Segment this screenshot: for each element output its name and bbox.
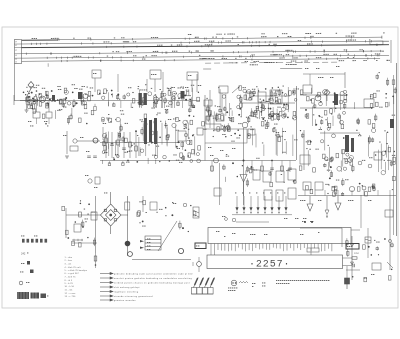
harness tick	[323, 50, 325, 52]
value label	[226, 155, 229, 158]
value label	[57, 85, 60, 88]
resistor R97	[278, 137, 281, 141]
hatched resistor R21	[365, 237, 371, 243]
value label	[261, 106, 262, 109]
junction	[300, 130, 301, 131]
value label	[80, 136, 83, 139]
junction	[188, 231, 189, 232]
junction	[375, 154, 377, 156]
value label	[262, 282, 265, 285]
spare row label	[21, 235, 24, 238]
lead wire 86	[278, 114, 280, 121]
resistor R212	[179, 223, 181, 227]
lead wire 108	[346, 238, 348, 247]
harness tick	[238, 51, 240, 53]
junction	[392, 96, 394, 98]
junction	[176, 146, 178, 148]
value label	[228, 289, 235, 292]
tube label	[256, 192, 257, 195]
value label	[125, 122, 128, 125]
harness tick	[30, 43, 32, 45]
harness wire tag	[349, 35, 354, 38]
harness tick	[184, 38, 186, 40]
harness wire tag	[351, 32, 356, 35]
module U5	[385, 210, 393, 217]
tube label	[263, 192, 264, 195]
legend arrow 5	[100, 290, 113, 292]
transformer T7	[258, 92, 266, 102]
harness tick	[123, 46, 125, 48]
value label	[321, 116, 322, 119]
lead label	[141, 120, 142, 123]
transistor Q41	[184, 133, 187, 136]
board pin	[269, 244, 271, 250]
resistor R174	[342, 149, 345, 153]
resistor R167	[302, 134, 304, 137]
harness wire tag	[316, 56, 321, 59]
value label	[74, 87, 77, 90]
junction	[356, 130, 357, 131]
lead wire 91	[245, 170, 247, 174]
harness tick	[345, 40, 347, 42]
value label	[168, 89, 169, 92]
svg-text:7 - belt 75: 7 - belt 75	[65, 276, 77, 279]
junction	[327, 193, 328, 194]
harness tick	[255, 41, 257, 43]
transistor Q59	[337, 167, 342, 172]
lead label	[274, 126, 275, 129]
harness wire tag	[253, 60, 258, 63]
riser wire	[94, 78, 96, 92]
harness wire tag	[316, 32, 321, 35]
resistor R96	[207, 116, 209, 120]
tube label	[249, 192, 250, 195]
transformer T12	[216, 114, 224, 121]
junction	[136, 161, 138, 163]
lead wire	[219, 89, 221, 108]
bracket tick	[77, 239, 79, 241]
value label	[215, 105, 216, 108]
resistor R24	[117, 140, 120, 145]
lead wire 32	[274, 92, 276, 97]
resistor R9	[46, 91, 49, 95]
lead wire 21	[177, 100, 179, 106]
spare part icon	[30, 270, 34, 274]
resistor R29	[164, 99, 166, 102]
value label	[140, 118, 143, 121]
value label	[262, 285, 265, 288]
value label	[336, 179, 339, 182]
resistor R15	[34, 96, 37, 100]
resistor R26	[135, 146, 138, 151]
value label	[277, 106, 280, 109]
junction	[86, 123, 88, 125]
harness wire tag	[196, 50, 197, 53]
left feed wire	[14, 64, 16, 101]
resistor R202	[347, 252, 349, 256]
lead wire	[170, 87, 172, 108]
transistor Q21	[282, 114, 286, 118]
svg-text:6 - a gek 907: 6 - a gek 907	[65, 273, 80, 275]
wire	[351, 229, 360, 231]
phase connector	[346, 244, 359, 250]
stage label	[300, 199, 305, 202]
value label	[224, 125, 227, 128]
value label	[186, 89, 189, 92]
harness wire tag	[171, 44, 172, 47]
junction	[310, 99, 312, 101]
resistor R12	[63, 99, 66, 103]
transistor Q38	[183, 120, 187, 124]
transistor Q10	[127, 93, 130, 96]
junction	[99, 93, 101, 95]
component lead	[363, 190, 365, 196]
resistor R147	[188, 153, 191, 157]
junction	[260, 111, 262, 113]
lead wire 26	[71, 108, 73, 116]
harness wire tag	[298, 39, 301, 42]
lead wire 110	[376, 246, 378, 250]
transistor Q54	[327, 127, 330, 130]
dark part strip	[41, 294, 47, 299]
lead wire 39	[240, 95, 242, 104]
resistor R177	[345, 159, 348, 163]
coil L11	[214, 188, 221, 196]
value label	[34, 86, 37, 89]
tube label	[277, 192, 278, 195]
svg-text:aansluit punten gedrukte bedra: aansluit punten gedrukte bedrading en on…	[114, 277, 192, 280]
lead wire	[287, 87, 289, 112]
transistor Q31	[340, 91, 344, 95]
lead label	[256, 85, 257, 88]
lead label	[193, 133, 194, 136]
harness tick	[220, 41, 222, 43]
resistor R194	[332, 186, 335, 190]
diode D3	[222, 95, 226, 99]
lead wire 24	[184, 123, 186, 126]
resistor R128	[368, 120, 371, 124]
legend arrow 2	[100, 277, 113, 279]
volume control wire	[127, 196, 129, 256]
diode D14	[351, 244, 354, 247]
resistor R156	[270, 182, 273, 186]
value label	[157, 112, 160, 115]
harness wire tag	[261, 35, 266, 38]
value label	[213, 129, 214, 132]
component lead	[314, 190, 316, 196]
harness wire tag	[196, 50, 199, 53]
T2 value	[44, 120, 47, 123]
resistor R133	[192, 150, 195, 154]
value label	[121, 113, 124, 116]
lead wire	[190, 97, 192, 108]
lead wire	[231, 110, 233, 116]
harness tick	[51, 52, 53, 54]
value label	[364, 277, 367, 280]
value label	[315, 148, 318, 151]
transistor Q12	[67, 101, 71, 105]
resistor R137	[182, 157, 184, 160]
board pin	[327, 244, 329, 249]
junction	[27, 91, 28, 92]
harness tick	[90, 38, 92, 40]
value label	[82, 85, 85, 88]
lead wire	[111, 132, 113, 158]
resistor R204	[66, 230, 69, 234]
potentiometer P1	[125, 241, 131, 247]
harness wire tag	[307, 43, 310, 46]
resistor R46	[166, 111, 168, 113]
resistor R201	[376, 248, 378, 250]
board pin	[279, 244, 281, 249]
harness wire tag	[73, 55, 76, 58]
harness tick	[208, 45, 210, 47]
harness tick	[243, 41, 245, 43]
harness wire tag	[387, 59, 388, 62]
value label	[146, 211, 147, 214]
resistor R3	[39, 94, 42, 98]
resistor R8	[46, 103, 48, 106]
arrow marker	[140, 247, 144, 249]
harness tick	[375, 44, 377, 46]
resistor R165	[336, 153, 339, 157]
resistor R172	[323, 154, 326, 158]
value label	[210, 154, 213, 157]
lead wire 59	[339, 116, 341, 125]
harness wire tag	[305, 32, 308, 35]
lead label	[325, 118, 326, 121]
harness tick	[239, 55, 241, 57]
harness tick	[371, 40, 373, 42]
harness wire tag	[212, 36, 213, 39]
lead wire 93	[294, 179, 296, 184]
resistor R11	[95, 177, 100, 184]
harness wire tag	[308, 32, 311, 35]
resistor R189	[372, 184, 375, 188]
capacitor C16	[110, 144, 114, 145]
oscillator Q6	[73, 139, 77, 143]
lead wire 17	[164, 97, 166, 104]
harness tick	[240, 55, 242, 57]
transistor Q14	[163, 93, 166, 96]
harness wire tag	[274, 53, 277, 56]
harness wire tag	[238, 43, 239, 46]
lead wire 87	[248, 116, 250, 123]
harness wire tag	[276, 61, 277, 64]
svg-text:4 - klok 25 volt: 4 - klok 25 volt	[65, 266, 81, 269]
resistor R70	[253, 92, 255, 94]
switch S1 arm	[232, 86, 240, 93]
value label	[115, 118, 116, 121]
junction	[309, 149, 310, 150]
harness wire tag	[336, 32, 337, 35]
transistor Q9	[64, 90, 68, 94]
resistor R18	[91, 212, 97, 220]
transistor Q51	[116, 117, 120, 121]
value label	[174, 92, 177, 95]
lead label	[155, 93, 156, 96]
value label	[173, 97, 174, 100]
board label	[250, 233, 255, 236]
wire	[214, 244, 216, 256]
lead wire 6	[111, 93, 113, 97]
wire	[300, 107, 370, 109]
resistor R206	[72, 241, 75, 245]
value label	[173, 202, 176, 205]
component lead	[344, 72, 346, 88]
value label	[72, 83, 75, 86]
junction	[49, 98, 51, 100]
resistor R136	[189, 140, 192, 144]
harness tick	[186, 45, 188, 47]
lead wire 5	[37, 97, 39, 105]
resistor R20	[88, 92, 91, 96]
fuse F1	[232, 218, 236, 222]
resistor R92	[217, 127, 220, 131]
harness wire tag	[205, 43, 210, 46]
harness tick	[25, 53, 27, 55]
junction	[293, 180, 294, 181]
junction	[242, 165, 243, 166]
lead wire 48	[224, 125, 226, 132]
harness tick	[247, 37, 249, 39]
lead wire	[261, 101, 263, 116]
harness tick	[250, 45, 252, 47]
value label	[63, 106, 66, 109]
spare part icon	[22, 239, 25, 243]
junction	[151, 142, 153, 144]
board pin	[258, 244, 260, 250]
lead wire	[117, 132, 119, 158]
harness wire tag	[211, 43, 212, 46]
lead wire 27	[68, 116, 70, 125]
harness wire tag	[194, 40, 199, 43]
T14 core b	[351, 138, 354, 152]
lead wire	[155, 144, 157, 156]
resistor R170	[299, 166, 302, 170]
value label	[90, 87, 93, 90]
value label	[325, 183, 328, 186]
harness wire tag	[273, 61, 274, 64]
value label	[94, 186, 97, 189]
resistor R28	[104, 89, 107, 93]
harness wire 6	[22, 58, 380, 61]
value label	[250, 96, 251, 99]
value label	[392, 154, 395, 157]
harness wire tag	[311, 43, 312, 46]
lead wire 38	[284, 112, 286, 117]
harness wire tag	[189, 50, 190, 53]
lead wire	[281, 128, 283, 154]
value label	[156, 113, 157, 116]
harness box divider	[14, 43, 21, 45]
resistor R6	[28, 105, 30, 109]
lead label	[326, 159, 327, 162]
resistor R127	[375, 116, 377, 120]
resistor R176	[313, 168, 316, 172]
junction	[371, 107, 373, 109]
junction	[142, 220, 144, 222]
lead wire	[385, 162, 387, 172]
resistor R51	[144, 114, 147, 118]
harness tick	[92, 56, 94, 58]
junction	[113, 158, 115, 160]
lead wire	[388, 145, 390, 170]
value label	[156, 145, 159, 148]
lead wire 9	[141, 101, 143, 106]
resistor R205	[93, 240, 95, 244]
junction	[65, 97, 67, 99]
module U2c	[276, 171, 284, 182]
lead wire	[210, 111, 212, 116]
resistor R146	[103, 142, 105, 146]
resistor R73	[270, 96, 273, 100]
resistor R106	[330, 109, 333, 113]
lead wire 33	[283, 103, 285, 108]
resistor R183	[334, 186, 337, 190]
value label	[127, 150, 130, 153]
wire	[236, 221, 269, 223]
ground	[65, 156, 69, 158]
value label	[257, 116, 258, 119]
junction	[117, 94, 119, 96]
value label	[86, 150, 89, 153]
coil L7	[303, 182, 311, 190]
lead wire	[175, 125, 177, 148]
resistor R158	[223, 166, 225, 169]
component lead	[351, 190, 353, 196]
harness wire tag	[121, 36, 124, 39]
resistor R108	[344, 104, 346, 108]
value label	[379, 106, 382, 109]
value label	[376, 90, 379, 93]
harness wire tag	[304, 60, 307, 63]
value label	[255, 116, 256, 119]
component lead	[304, 190, 306, 196]
transistor Q22	[284, 94, 287, 97]
harness tick	[136, 46, 138, 48]
legend arrow 3	[100, 281, 113, 283]
transistor Q9	[348, 158, 353, 163]
lead wire	[276, 137, 278, 156]
resistor R113	[328, 123, 331, 127]
legend arrow 6	[100, 295, 113, 297]
lead wire	[194, 136, 196, 155]
resistor R195	[365, 192, 368, 196]
mains connector label	[196, 245, 199, 248]
lead wire 89	[225, 177, 227, 182]
svg-text:2252: 2252	[354, 253, 360, 255]
harness wire tag	[236, 61, 237, 64]
ground	[106, 118, 110, 120]
harness wire tag	[292, 56, 297, 59]
junction	[238, 114, 240, 116]
harness tick	[306, 55, 308, 57]
module U2	[253, 170, 260, 180]
riser wire	[154, 79, 156, 92]
junction	[31, 92, 33, 94]
video amp Q8	[242, 122, 248, 128]
junction	[269, 108, 271, 110]
harness tick	[58, 39, 60, 41]
value label	[47, 295, 48, 298]
value label	[374, 239, 375, 242]
resistor R103	[338, 115, 340, 118]
junction	[57, 99, 59, 101]
lead wire	[307, 150, 309, 166]
T10 core b	[149, 120, 152, 142]
harness tick	[310, 37, 312, 39]
